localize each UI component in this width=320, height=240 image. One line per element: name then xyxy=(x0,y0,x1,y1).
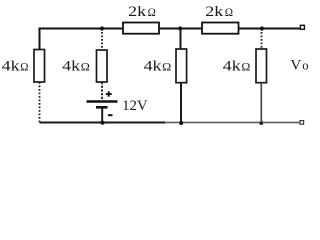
svg-text:4k: 4k xyxy=(2,58,20,74)
svg-text:4k: 4k xyxy=(144,59,162,75)
svg-text:Ω: Ω xyxy=(20,59,28,73)
svg-text:Ω: Ω xyxy=(241,60,250,74)
svg-text:Ω: Ω xyxy=(148,5,156,19)
svg-text:Ω: Ω xyxy=(225,5,233,19)
svg-text:2k: 2k xyxy=(128,4,146,20)
svg-text:4k: 4k xyxy=(223,59,241,75)
svg-text:4k: 4k xyxy=(62,59,80,75)
svg-text:12V: 12V xyxy=(122,98,148,114)
svg-text:Ω: Ω xyxy=(81,60,90,74)
svg-text:Ω: Ω xyxy=(162,60,171,74)
svg-text:2k: 2k xyxy=(205,4,223,20)
svg-text:V: V xyxy=(290,57,301,73)
svg-text:o: o xyxy=(302,57,308,72)
